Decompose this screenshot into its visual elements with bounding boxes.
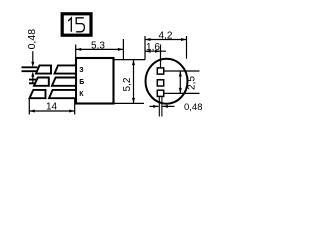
- svg-text:К: К: [79, 91, 84, 98]
- lead 1 break piece A: [36, 65, 51, 73]
- dimension 14 (lead length): [29, 99, 74, 115]
- dimension 4,2: [145, 31, 187, 60]
- svg-text:0,48: 0,48: [184, 102, 203, 113]
- figure number box 15: [62, 14, 91, 35]
- lead square bottom: [157, 90, 163, 96]
- lead square middle: [157, 80, 163, 86]
- svg-text:Б: Б: [79, 79, 84, 86]
- lead 1 break piece B: [55, 65, 77, 73]
- svg-text:З: З: [79, 67, 84, 74]
- lead 2 break piece A: [34, 78, 49, 86]
- dimension 5,2 (height, right of body): [122, 60, 135, 104]
- svg-text:2,5: 2,5: [186, 76, 197, 90]
- body outline (side view): [76, 58, 114, 104]
- lead 3 (collector) break piece A: [30, 90, 46, 98]
- lead 3 break piece B: [49, 90, 76, 98]
- dimension 5,3 (body width): [76, 39, 124, 60]
- dimension 2,5: [164, 71, 200, 93]
- lead 1 (emitter) thin section: [22, 67, 38, 71]
- extension line body bottom to circle: [114, 102, 145, 104]
- svg-text:5,2: 5,2: [122, 77, 133, 91]
- projection line body top to circle: [114, 59, 146, 61]
- center line through lead squares and 0,48 feature lines: [160, 45, 162, 72]
- dimension 1,6: [145, 42, 166, 53]
- lead 2 break piece B: [52, 78, 76, 86]
- dimension 0,48 lead thickness (left): [26, 29, 38, 84]
- lead 2 (base) thin section: [29, 80, 36, 84]
- package outline circle (end view): [146, 59, 188, 104]
- dimension 0,48 (end view lead): [150, 102, 203, 113]
- svg-text:0,48: 0,48: [26, 29, 38, 50]
- lead square top (end view): [157, 68, 163, 74]
